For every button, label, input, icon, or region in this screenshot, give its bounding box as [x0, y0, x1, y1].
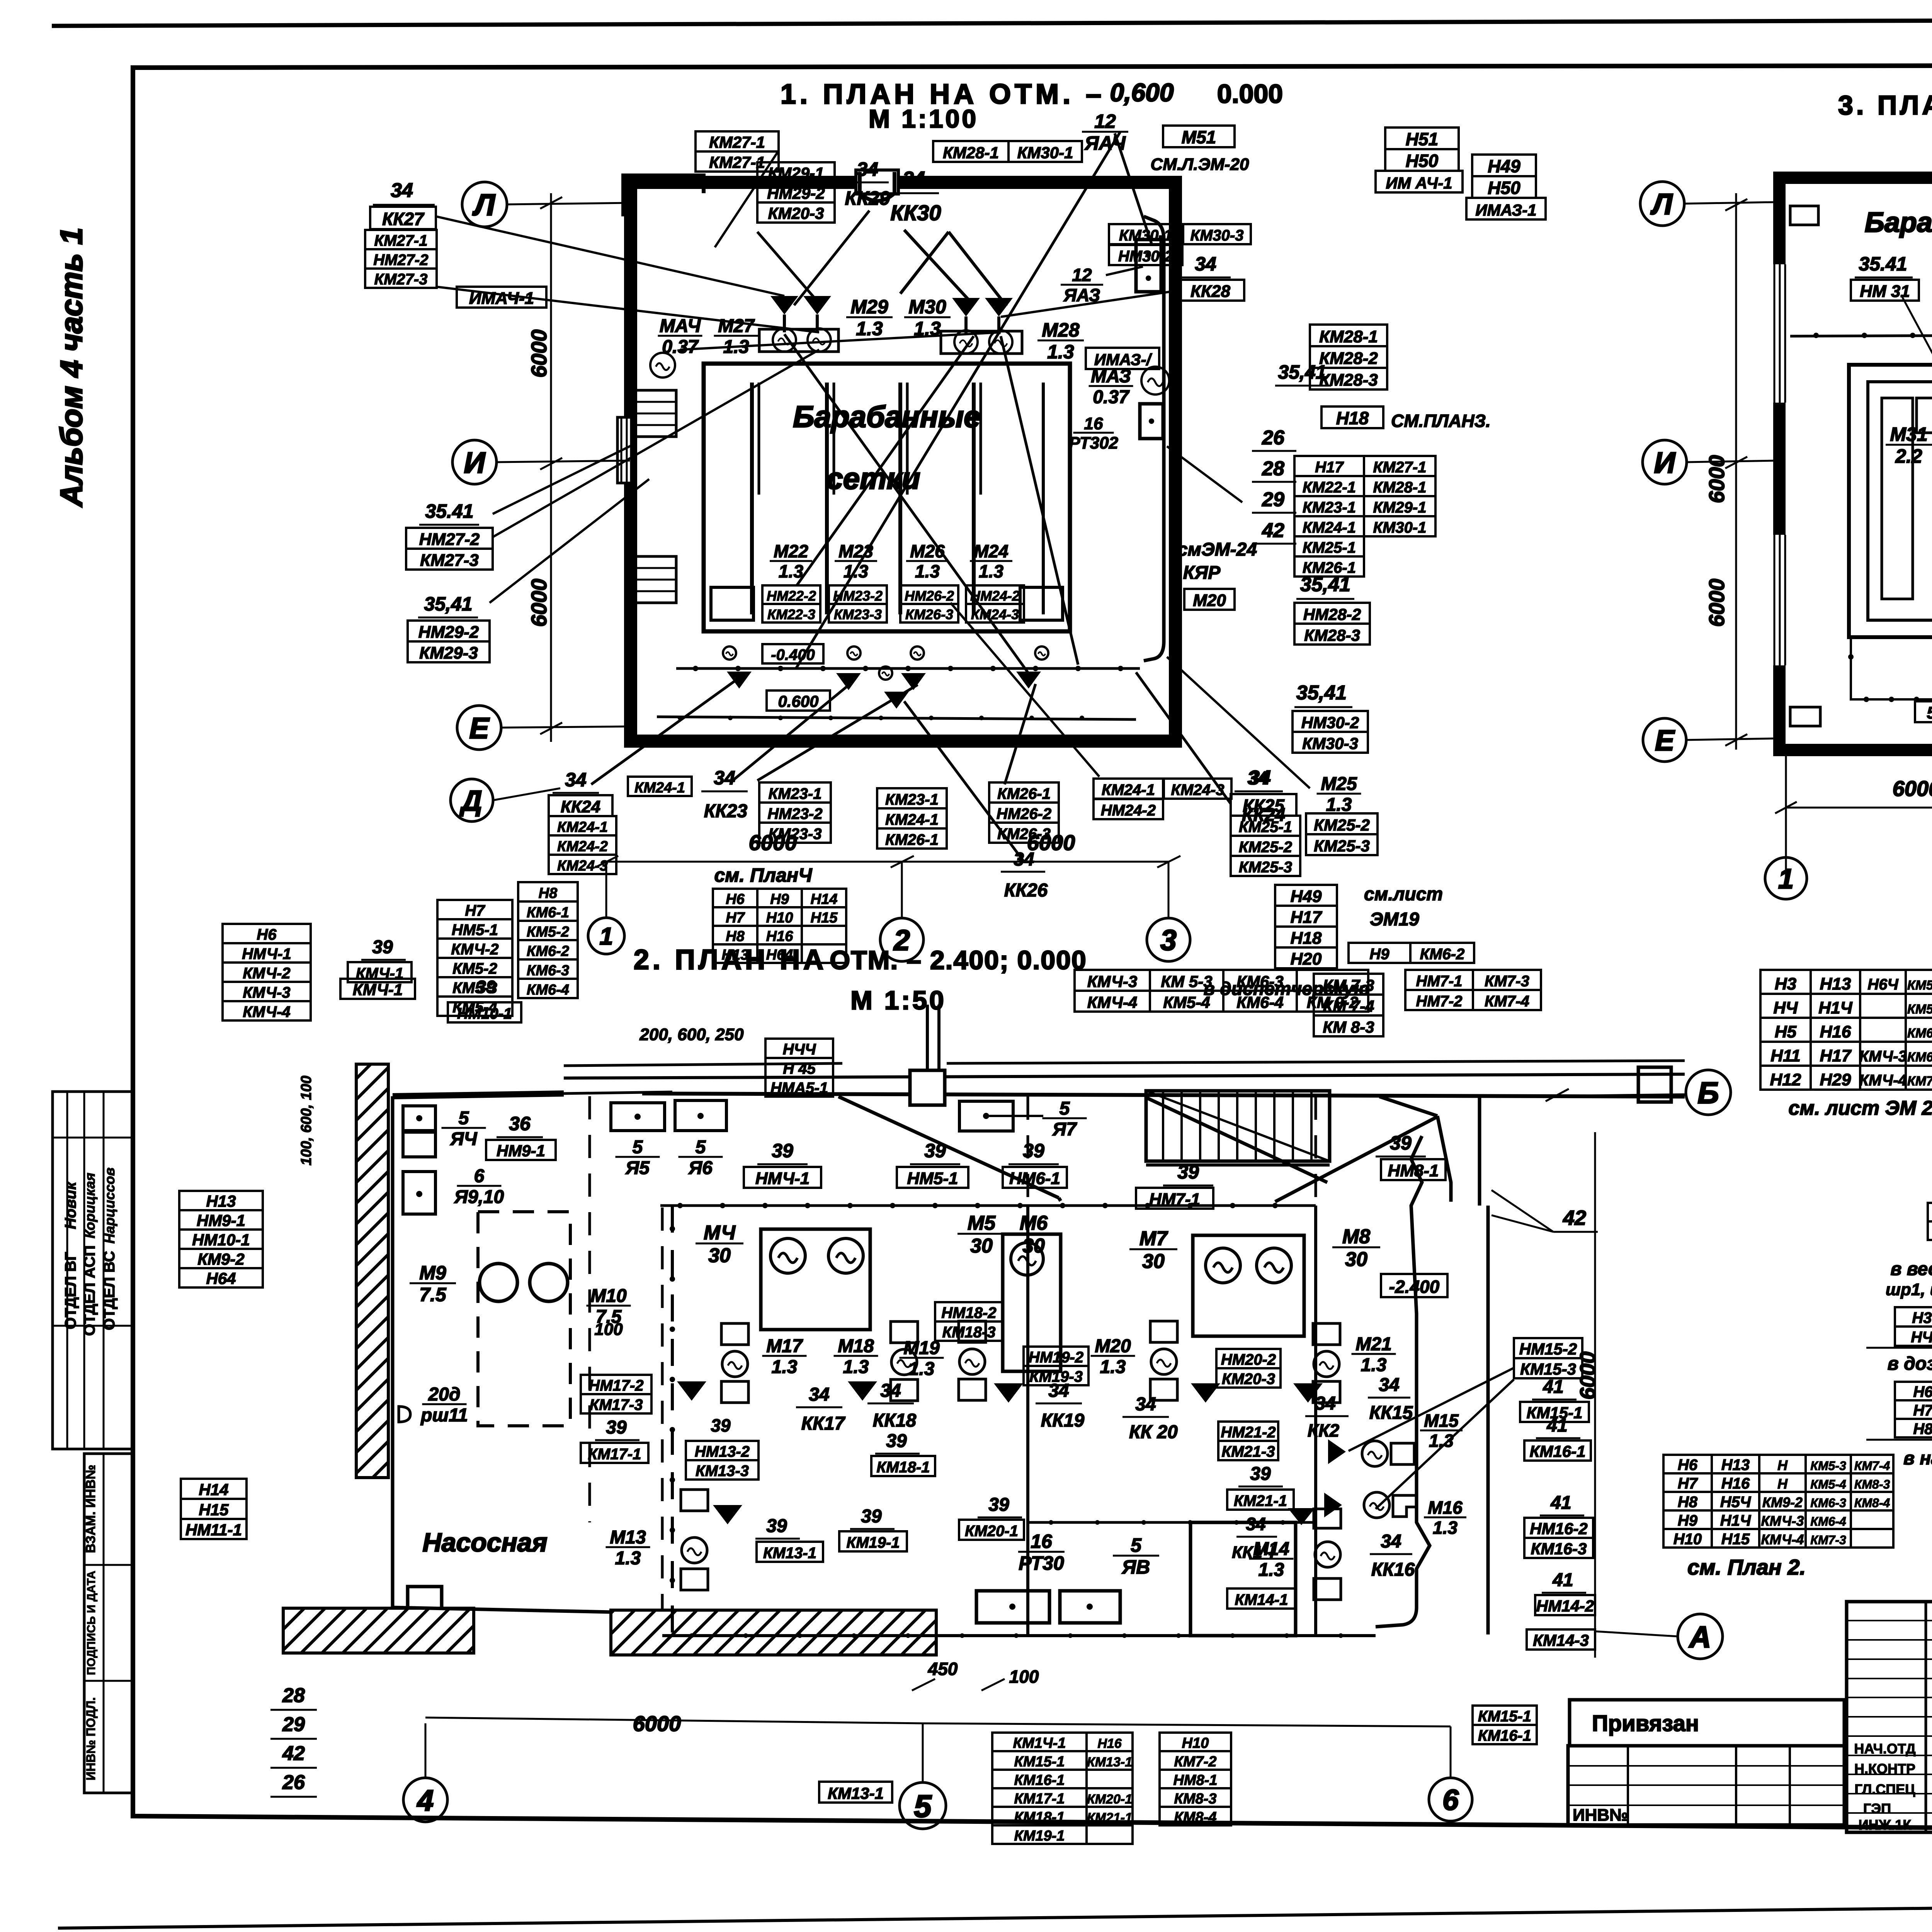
label KM23 stack1	[759, 782, 831, 803]
equipment box M5M6	[1003, 1234, 1061, 1371]
leader KK30 to breakers	[904, 230, 974, 305]
middle table 5x5	[1760, 970, 1811, 994]
svg-text:34: 34	[857, 158, 878, 180]
plan2 bottom dim line	[425, 1718, 923, 1723]
svg-text:см. лист ЭМ 21: см. лист ЭМ 21	[1789, 1097, 1932, 1119]
svg-text:КМ30-1: КМ30-1	[1017, 143, 1073, 162]
label 5.800 box	[1915, 701, 1932, 722]
label KM13-1 bottom	[819, 1782, 892, 1803]
plan1 bottom bus dots	[693, 666, 698, 671]
svg-text:Н8: Н8	[726, 928, 745, 944]
bottom table H6	[1663, 1455, 1712, 1473]
motor group M30	[954, 330, 978, 354]
axis circle 4	[403, 1778, 447, 1822]
svg-text:5.800: 5.800	[1927, 703, 1932, 722]
svg-text:НМА5-1: НМА5-1	[770, 1080, 828, 1097]
svg-text:ЯВ: ЯВ	[1121, 1556, 1150, 1578]
svg-text:Н64: Н64	[766, 947, 793, 963]
svg-text:КМ25-3: КМ25-3	[1239, 859, 1292, 876]
leader crossing drum big2	[797, 336, 974, 585]
svg-text:КМ20-1: КМ20-1	[965, 1523, 1018, 1540]
svg-text:Н16: Н16	[1097, 1736, 1122, 1751]
svg-text:М5: М5	[968, 1212, 996, 1235]
label KM28 stack	[1310, 325, 1387, 346]
svg-text:28: 28	[1262, 457, 1284, 480]
svg-text:Н6: Н6	[257, 926, 277, 943]
svg-text:МАЗ: МАЗ	[1091, 366, 1131, 386]
svg-text:КМ15-1: КМ15-1	[1478, 1708, 1531, 1725]
leader 35.41 to left	[493, 444, 634, 514]
svg-text:М28: М28	[1042, 319, 1079, 341]
svg-text:НМ27-2: НМ27-2	[419, 530, 480, 549]
plan2 vert cable 3	[1314, 1206, 1317, 1634]
motor M4a	[770, 1238, 805, 1273]
svg-text:Я5: Я5	[625, 1158, 650, 1179]
svg-text:1.3: 1.3	[1326, 795, 1352, 815]
plan2 dashed partition 1	[588, 1096, 591, 1522]
svg-text:НАЧ.ОТД: НАЧ.ОТД	[1854, 1741, 1915, 1757]
svg-text:ИНВ№ ПОДЛ.: ИНВ№ ПОДЛ.	[84, 1697, 98, 1780]
svg-text:рш11: рш11	[420, 1405, 468, 1426]
svg-text:29: 29	[1262, 488, 1284, 511]
plan2 dashed partition 2	[661, 1207, 664, 1634]
svg-text:КМ22-3: КМ22-3	[767, 606, 815, 622]
svg-text:ПОДПИСЬ И ДАТА: ПОДПИСЬ И ДАТА	[85, 1571, 98, 1675]
svg-text:КК27: КК27	[382, 209, 425, 229]
svg-text:КМ30-3: КМ30-3	[1190, 227, 1244, 244]
svg-text:КМ27-3: КМ27-3	[420, 551, 479, 570]
label 20d rsh11	[399, 1406, 410, 1422]
svg-text:НМ9-1: НМ9-1	[197, 1211, 245, 1230]
svg-text:КМ24-1: КМ24-1	[557, 819, 608, 835]
label KM27-1 top	[696, 131, 779, 151]
svg-text:КМ29-1: КМ29-1	[1373, 499, 1427, 516]
svg-text:НМ21-2: НМ21-2	[1221, 1424, 1276, 1441]
svg-text:НМ10-1: НМ10-1	[457, 1005, 512, 1022]
svg-text:Н49: Н49	[1291, 887, 1322, 906]
svg-text:КМ5-4: КМ5-4	[1810, 1477, 1846, 1491]
svg-text:КМ6-4: КМ6-4	[1907, 1050, 1932, 1065]
svg-text:1.3: 1.3	[856, 318, 883, 340]
svg-text:1.3: 1.3	[909, 1359, 935, 1379]
plan1 right device box1	[1136, 240, 1161, 292]
plan3 grid line L	[1684, 202, 1777, 204]
svg-text:КМ17-3: КМ17-3	[590, 1396, 643, 1413]
svg-text:7.5: 7.5	[419, 1284, 447, 1306]
label H8 stack tall	[518, 882, 578, 901]
svg-text:М 1:50: М 1:50	[850, 986, 946, 1015]
svg-text:КМ14-1: КМ14-1	[1235, 1592, 1288, 1609]
equipment box M4	[761, 1229, 870, 1330]
svg-text:М7: М7	[1139, 1228, 1168, 1250]
plan3 grid line E	[1686, 738, 1777, 740]
svg-text:КМ16-1: КМ16-1	[1478, 1727, 1531, 1744]
svg-text:КМ27-1: КМ27-1	[374, 232, 428, 249]
svg-text:Н7: Н7	[465, 902, 485, 919]
plan2 diagonal cable 1	[838, 1097, 1059, 1198]
grid line I	[497, 461, 630, 462]
svg-text:КМ6-3: КМ6-3	[1810, 1496, 1846, 1510]
svg-text:КМ24-1: КМ24-1	[1303, 519, 1356, 536]
svg-text:5: 5	[914, 1789, 932, 1824]
plan1 lower bus2	[657, 717, 1136, 719]
plan2 stair block	[1146, 1091, 1330, 1161]
label IMA3-1	[1086, 348, 1159, 369]
label HM18-2 KM18-3	[935, 1302, 1003, 1321]
leader long from M51 to bottom	[796, 131, 1121, 668]
svg-text:КМ5-2: КМ5-2	[527, 924, 569, 940]
svg-text:НМ13-2: НМ13-2	[695, 1443, 750, 1460]
grid line D	[493, 788, 560, 800]
svg-text:М20: М20	[1193, 591, 1226, 610]
grid circle L	[462, 182, 507, 227]
svg-text:Н10: Н10	[766, 910, 793, 926]
label H49 H17 H18 H20	[1275, 885, 1337, 906]
plan3 corner tab bl	[1790, 707, 1820, 726]
svg-text:КК23: КК23	[704, 801, 748, 821]
svg-text:КМ29-3: КМ29-3	[419, 643, 478, 662]
equipment box M7	[1193, 1235, 1304, 1336]
svg-text:КМ21-3: КМ21-3	[1222, 1443, 1275, 1460]
svg-text:Н14: Н14	[811, 891, 838, 907]
svg-text:ВЗАМ. ИНВ№: ВЗАМ. ИНВ№	[83, 1465, 98, 1553]
svg-text:КМ9-2: КМ9-2	[197, 1250, 245, 1268]
leader long from YACH	[1115, 133, 1151, 243]
label IMACH-1	[457, 287, 546, 308]
svg-text:НМ15-2: НМ15-2	[1519, 1340, 1577, 1358]
label M51 box	[1163, 126, 1235, 147]
svg-text:Н18: Н18	[1336, 408, 1369, 428]
svg-text:34: 34	[1315, 1393, 1335, 1414]
svg-text:Н8: Н8	[539, 885, 558, 901]
stamp column upper verticals	[66, 1092, 68, 1449]
svg-text:39: 39	[476, 977, 496, 997]
svg-text:М16: М16	[1428, 1498, 1463, 1518]
plan2 bus upper	[660, 1204, 1316, 1207]
svg-text:КМ14-3: КМ14-3	[1533, 1631, 1589, 1650]
svg-text:КМ1Ч-1: КМ1Ч-1	[1013, 1735, 1066, 1751]
device box Ya6	[675, 1100, 726, 1131]
svg-text:42: 42	[282, 1742, 305, 1765]
svg-text:КМ26-3: КМ26-3	[905, 606, 953, 622]
title block outer	[1847, 1602, 1932, 1832]
svg-text:КМЧ-3: КМЧ-3	[1761, 1513, 1804, 1529]
plan2 junction box top	[910, 1070, 945, 1105]
device box YaV	[1060, 1591, 1120, 1623]
svg-text:39: 39	[766, 1516, 787, 1536]
svg-text:КК24: КК24	[561, 797, 600, 816]
svg-text:41: 41	[1550, 1493, 1571, 1513]
svg-text:КМ6-3: КМ6-3	[1236, 972, 1284, 990]
svg-text:КМ24-2: КМ24-2	[557, 838, 608, 855]
label 39 KM13-1b	[686, 1441, 759, 1460]
svg-text:КМ5-2: КМ5-2	[452, 960, 497, 977]
plan3 grid circle E	[1643, 718, 1686, 762]
plan2 bottom bus	[662, 1634, 1376, 1637]
svg-text:М10: М10	[590, 1286, 627, 1306]
svg-text:М25: М25	[1321, 774, 1357, 794]
svg-text:М31: М31	[1890, 423, 1927, 445]
svg-text:Н16: Н16	[766, 928, 794, 944]
label KM28-1 KM30-1 top	[933, 141, 1009, 162]
plan2 bottom hatched bar mid	[611, 1610, 936, 1655]
plan3 grid circle L	[1640, 182, 1684, 226]
svg-text:КК16: КК16	[1371, 1560, 1415, 1580]
svg-text:КМ6-2: КМ6-2	[527, 943, 569, 959]
label KM14-1	[1227, 1588, 1296, 1609]
svg-text:А: А	[1689, 1620, 1711, 1654]
plan1 drum room rect	[704, 364, 1070, 631]
svg-text:КМ5-4: КМ5-4	[1163, 993, 1210, 1011]
svg-text:КМ18-1: КМ18-1	[1014, 1809, 1065, 1825]
svg-text:34: 34	[1195, 253, 1216, 275]
motor M5	[1011, 1243, 1043, 1275]
svg-text:М 1:100: М 1:100	[869, 104, 978, 133]
grid line E	[501, 726, 630, 728]
svg-text:39: 39	[1250, 1464, 1271, 1484]
label KM30-1 KM30-3	[1109, 224, 1182, 244]
svg-text:КМ5-3: КМ5-3	[1810, 1459, 1846, 1473]
svg-text:Н: Н	[1777, 1457, 1788, 1473]
svg-text:Нарциссов: Нарциссов	[102, 1167, 117, 1243]
svg-text:2.2: 2.2	[1895, 446, 1922, 467]
svg-text:КМ24-1: КМ24-1	[634, 780, 685, 796]
plan2 left wall line	[391, 1096, 395, 1607]
svg-text:НМ14-2: НМ14-2	[1536, 1597, 1594, 1615]
svg-text:М18: М18	[838, 1336, 874, 1356]
plan3 bottom dim	[1786, 807, 1932, 809]
plan3 axis circle 1	[1765, 857, 1807, 899]
device box Ya4	[403, 1106, 435, 1131]
plan2 mid bus	[1028, 1521, 1316, 1524]
svg-text:КМ28-2: КМ28-2	[1319, 349, 1378, 368]
axis circle 3	[1147, 918, 1190, 961]
label H13 HM9 stack	[179, 1191, 263, 1210]
plan2 vert dots 1	[670, 1226, 675, 1231]
svg-text:Б: Б	[1697, 1076, 1719, 1110]
svg-text:6: 6	[474, 1166, 485, 1186]
svg-text:Н1Ч: Н1Ч	[1818, 998, 1852, 1017]
device box Ya7	[959, 1101, 1013, 1131]
svg-text:КМ24-1: КМ24-1	[1102, 782, 1155, 799]
svg-text:34: 34	[1381, 1531, 1401, 1552]
svg-text:39: 39	[1023, 1140, 1044, 1162]
svg-text:И: И	[1654, 446, 1676, 479]
label H17 KM27 table	[1294, 456, 1364, 476]
svg-text:КМ28-1: КМ28-1	[1319, 327, 1378, 346]
svg-text:Н5: Н5	[1775, 1022, 1797, 1041]
svg-text:КМЧ-4: КМЧ-4	[1859, 1072, 1906, 1089]
svg-text:КМ17-1: КМ17-1	[1014, 1791, 1065, 1807]
svg-text:КМЧ-3: КМЧ-3	[1859, 1048, 1906, 1065]
svg-text:41: 41	[1543, 1377, 1563, 1397]
svg-text:КМ25-3: КМ25-3	[1314, 837, 1370, 855]
svg-text:39: 39	[861, 1506, 882, 1527]
plan2 dashed partition 3	[1027, 1097, 1029, 1206]
svg-text:Н6: Н6	[726, 891, 745, 907]
svg-text:Н18: Н18	[1291, 929, 1322, 947]
svg-text:5: 5	[696, 1137, 706, 1157]
svg-text:35,41: 35,41	[1300, 573, 1350, 596]
axis circle 1	[588, 918, 624, 954]
plan2 vert cable 1	[671, 1206, 674, 1634]
svg-text:0.37: 0.37	[1093, 387, 1130, 408]
label H3 H5 H4 table	[1895, 1307, 1932, 1327]
svg-text:М24: М24	[974, 541, 1008, 561]
sheet bottom edge line	[58, 1900, 1932, 1928]
label KM9-1 small	[340, 979, 415, 999]
privyazan box	[1570, 1700, 1844, 1746]
plan2 bottom hatched bar left	[283, 1608, 474, 1653]
svg-text:КК19: КК19	[1041, 1410, 1085, 1431]
plan1 right cable	[1144, 216, 1164, 661]
svg-text:КМ27-1: КМ27-1	[1373, 459, 1427, 476]
svg-text:Н8: Н8	[1678, 1493, 1698, 1510]
device box Ya5	[611, 1103, 665, 1131]
svg-text:КМ24-3: КМ24-3	[557, 858, 608, 874]
svg-text:КК 20: КК 20	[1129, 1422, 1178, 1442]
svg-text:КМ19-1: КМ19-1	[1014, 1828, 1065, 1844]
svg-text:КМ26-3: КМ26-3	[997, 826, 1051, 843]
leader MACH diag crossing	[436, 287, 819, 332]
svg-text:КК17: КК17	[801, 1413, 846, 1434]
svg-text:КМ7-4: КМ7-4	[1854, 1459, 1890, 1473]
svg-text:Н49: Н49	[1488, 156, 1520, 176]
svg-text:Привязан: Привязан	[1592, 1711, 1699, 1736]
svg-text:НМЧ-1: НМЧ-1	[755, 1169, 810, 1188]
svg-text:34: 34	[714, 767, 735, 789]
plan1 outer wall	[631, 182, 1175, 741]
svg-text:КМЧ-2: КМЧ-2	[243, 965, 290, 982]
svg-text:КК15: КК15	[1369, 1403, 1413, 1423]
svg-text:КМ27-3: КМ27-3	[374, 271, 428, 288]
svg-text:34: 34	[1379, 1375, 1399, 1395]
svg-text:КМ6-4: КМ6-4	[1236, 993, 1284, 1011]
stamp column upper box	[53, 1092, 132, 1449]
svg-text:НЧЧ: НЧЧ	[783, 1041, 816, 1058]
svg-text:Н9: Н9	[1369, 946, 1389, 963]
plan3 grid circle I	[1643, 440, 1687, 484]
breaker KK20	[1191, 1383, 1220, 1403]
svg-text:НМ17-2: НМ17-2	[588, 1377, 643, 1394]
svg-text:КМ23-3: КМ23-3	[834, 606, 882, 622]
label HM15-2 KM15-3	[1514, 1338, 1582, 1358]
leader bottom KM24 up	[951, 603, 1099, 777]
label -2.400 box	[1381, 1274, 1447, 1297]
svg-text:6000: 6000	[1704, 455, 1729, 503]
svg-text:КМ18-3: КМ18-3	[942, 1324, 996, 1341]
plan2 bottom left box	[408, 1587, 442, 1614]
plan3 machine inner left	[1868, 382, 1932, 620]
svg-text:Н17: Н17	[1820, 1046, 1852, 1065]
svg-text:Н6: Н6	[1678, 1456, 1698, 1473]
svg-text:НМ22-2: НМ22-2	[767, 588, 816, 604]
motor group M13	[681, 1490, 708, 1511]
svg-text:Новик: Новик	[62, 1181, 79, 1229]
label H6 stack tall	[223, 924, 311, 943]
svg-text:М22: М22	[774, 541, 808, 561]
plan1 drum divider 2	[825, 383, 829, 614]
svg-text:Н50: Н50	[1406, 151, 1439, 171]
svg-text:НМ30-2: НМ30-2	[1118, 248, 1173, 265]
svg-text:1.3: 1.3	[779, 561, 803, 582]
equipment box M14	[1190, 1522, 1296, 1636]
plan1 bottom motors	[723, 646, 736, 660]
svg-text:КМ8-3: КМ8-3	[1174, 1791, 1217, 1807]
svg-text:Н7: Н7	[1913, 1402, 1932, 1419]
leader crossing drum big3	[1001, 336, 1078, 665]
motor M16	[1364, 1492, 1389, 1518]
svg-text:Л: Л	[1650, 188, 1673, 221]
grid circle I	[452, 440, 497, 484]
label HM19-2 KM19-3	[1024, 1347, 1088, 1366]
svg-text:ОТДЕЛ ВС: ОТДЕЛ ВС	[101, 1251, 118, 1330]
svg-text:НЧ: НЧ	[1911, 1329, 1932, 1346]
motor M4b	[828, 1238, 863, 1273]
svg-text:Н11: Н11	[1770, 1046, 1800, 1065]
svg-text:КМ9-2: КМ9-2	[1762, 1494, 1803, 1510]
title block signature rows	[1847, 1620, 1932, 1621]
plan3 axis drop	[1785, 752, 1787, 878]
svg-text:39: 39	[1177, 1161, 1199, 1183]
svg-text:КМ16-1: КМ16-1	[1530, 1442, 1586, 1461]
motor M14	[1315, 1542, 1340, 1567]
svg-text:СМ.ПЛАНЗ.: СМ.ПЛАНЗ.	[1391, 411, 1491, 431]
svg-text:Н1Ч: Н1Ч	[1720, 1512, 1751, 1529]
svg-text:КМ13-1: КМ13-1	[763, 1545, 816, 1562]
svg-text:КМ8-3: КМ8-3	[1854, 1477, 1890, 1491]
svg-text:НМ24-2: НМ24-2	[1101, 802, 1156, 819]
motor M7b	[1257, 1248, 1291, 1283]
plan1 bottom breakers	[727, 672, 752, 689]
svg-text:КМ6-1: КМ6-1	[527, 905, 569, 921]
motor group M20	[1150, 1321, 1177, 1342]
svg-text:М27: М27	[718, 316, 755, 336]
bottom table H10	[1160, 1733, 1231, 1751]
motor group M21	[1313, 1323, 1340, 1345]
svg-text:ГЛ.СПЕЦ: ГЛ.СПЕЦ	[1855, 1781, 1916, 1797]
svg-text:30: 30	[1142, 1250, 1165, 1272]
leader KK25 area	[1136, 672, 1231, 804]
svg-text:НМ9-1: НМ9-1	[497, 1142, 545, 1160]
plan3 left window2	[1772, 535, 1787, 665]
motor group M17	[721, 1323, 748, 1345]
plan2 right cable zigzag	[1376, 1136, 1430, 1627]
leader KK28 diag	[1001, 291, 1178, 317]
svg-text:КМ25-2: КМ25-2	[1239, 839, 1292, 856]
svg-text:КМЧ-2: КМЧ-2	[451, 941, 498, 958]
svg-text:30: 30	[708, 1244, 731, 1267]
svg-text:34: 34	[1247, 768, 1268, 789]
svg-text:КМ7-3: КМ7-3	[1485, 973, 1529, 990]
svg-text:ОТМ. – 2.400; 0.000: ОТМ. – 2.400; 0.000	[830, 946, 1087, 975]
pump M9 M10 dashed box	[478, 1212, 570, 1426]
svg-text:12: 12	[1072, 265, 1092, 285]
label H11 H12 H29 right	[1928, 1203, 1932, 1221]
plan2 topright diag cable	[1379, 1097, 1437, 1116]
svg-text:Н6: Н6	[1913, 1383, 1932, 1400]
svg-text:НМ30-2: НМ30-2	[1301, 713, 1359, 731]
plan2 bottom wall line	[393, 1607, 611, 1612]
plan1 top door gap	[856, 170, 898, 194]
label HM7 pair	[1405, 970, 1473, 990]
svg-text:ЯЧ: ЯЧ	[450, 1129, 478, 1150]
axis circle 6	[1429, 1778, 1472, 1821]
svg-text:ИНВ№: ИНВ№	[1573, 1806, 1628, 1825]
svg-text:Н14: Н14	[199, 1481, 228, 1499]
label 0.600 box	[767, 690, 830, 711]
svg-text:Н6Ч: Н6Ч	[1867, 976, 1898, 993]
